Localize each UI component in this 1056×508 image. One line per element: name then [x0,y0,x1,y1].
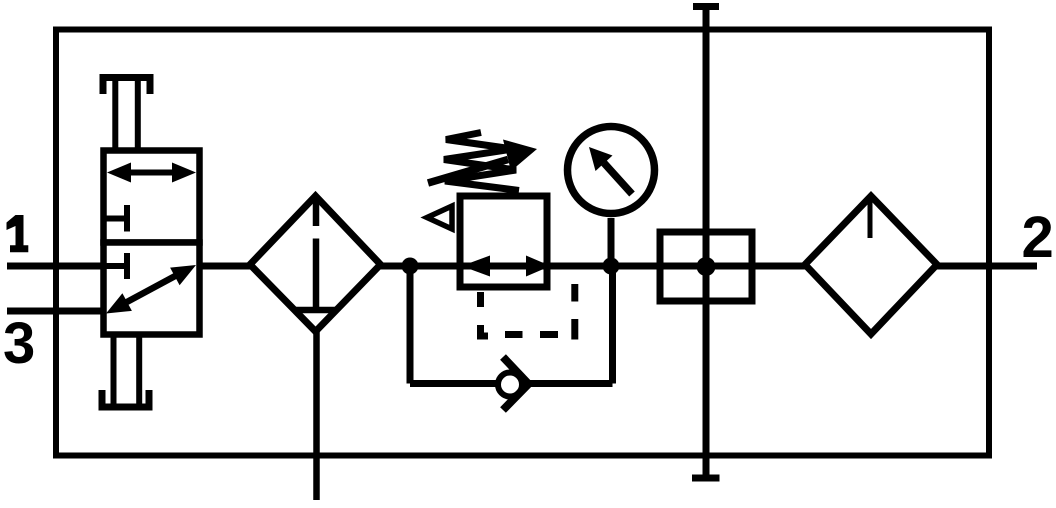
svg-text:3: 3 [3,311,35,376]
svg-text:2: 2 [1022,205,1054,270]
